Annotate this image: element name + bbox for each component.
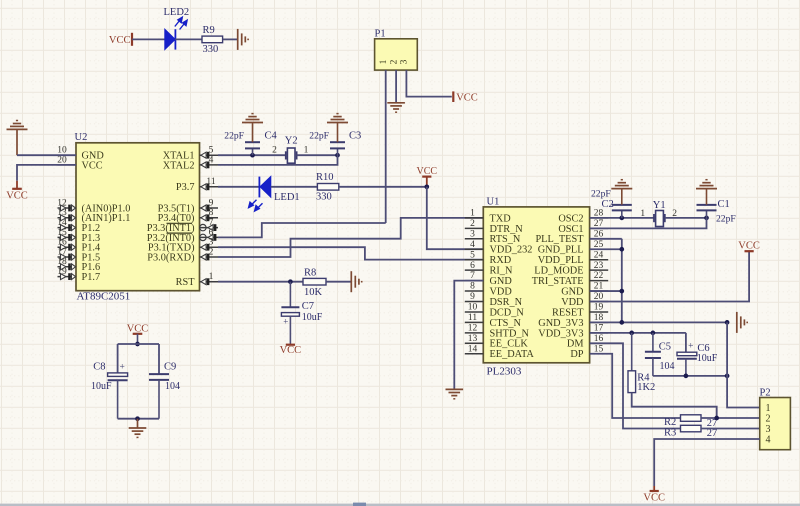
crystal Y1 <box>640 200 677 227</box>
node GND pin21 <box>619 289 624 294</box>
svg-text:15: 15 <box>57 228 67 238</box>
svg-text:DCD_N: DCD_N <box>490 307 525 318</box>
ground (C3) <box>327 114 348 123</box>
wire C8/C9 bottom rail <box>118 418 159 420</box>
svg-text:DTR_N: DTR_N <box>490 224 524 235</box>
svg-text:2: 2 <box>470 219 475 229</box>
wire VCC to LED2 <box>132 38 165 40</box>
svg-text:3: 3 <box>470 229 475 239</box>
wire R9 to ground <box>223 38 238 40</box>
capacitor C7 (10uF electrolytic) <box>281 282 322 345</box>
svg-text:4: 4 <box>209 155 214 165</box>
svg-text:RST: RST <box>176 277 196 288</box>
svg-text:+: + <box>283 316 288 326</box>
svg-text:2: 2 <box>766 414 771 425</box>
IC U1 body <box>483 197 589 378</box>
connector P2 <box>760 387 791 449</box>
svg-text:104: 104 <box>660 361 675 372</box>
svg-text:VDD: VDD <box>490 286 513 297</box>
svg-text:23: 23 <box>594 261 604 271</box>
node C6 bottom <box>684 374 689 379</box>
svg-text:DP: DP <box>570 349 583 360</box>
ground (C2) <box>611 180 632 189</box>
svg-text:C9: C9 <box>164 361 176 372</box>
svg-text:6: 6 <box>470 261 475 271</box>
capacitor C4 (22pF) <box>224 123 277 155</box>
node R4 top <box>629 331 634 336</box>
wire VCC node to U1 VDD_232 <box>427 187 484 249</box>
capacitor C1 (22pF) <box>697 189 736 225</box>
svg-text:10K: 10K <box>304 287 323 298</box>
svg-text:DM: DM <box>567 339 584 350</box>
svg-text:10: 10 <box>57 146 67 156</box>
svg-text:R10: R10 <box>316 172 334 183</box>
svg-text:10uF: 10uF <box>91 381 112 392</box>
LED D-LED1 <box>249 176 300 211</box>
power port VCC (P1 pin3) <box>453 91 477 103</box>
svg-text:11: 11 <box>206 177 215 187</box>
svg-text:22pF: 22pF <box>309 130 329 141</box>
wire OSC1 jog to C1 node <box>590 218 707 228</box>
svg-text:5: 5 <box>209 146 214 156</box>
wire LED2 to R9 <box>175 38 202 40</box>
svg-text:C8: C8 <box>93 361 105 372</box>
svg-text:12: 12 <box>468 323 478 333</box>
power port VCC (U2 pin20) <box>6 189 28 202</box>
U2 left pin names <box>82 151 131 283</box>
svg-text:U2: U2 <box>75 132 88 143</box>
svg-text:26: 26 <box>594 229 604 239</box>
svg-text:1: 1 <box>640 209 645 219</box>
svg-text:VCC: VCC <box>643 493 665 504</box>
resistor R10 (330) <box>316 172 339 202</box>
svg-text:18: 18 <box>57 257 67 267</box>
ground (C1) <box>696 180 717 189</box>
svg-text:9: 9 <box>209 198 214 208</box>
wire U2 TXD to U1 RXD <box>218 247 483 259</box>
node C8/C9 ground <box>135 416 140 421</box>
svg-text:9: 9 <box>470 292 475 302</box>
node GND_3V3 left <box>619 320 624 325</box>
wire Y2 to C3 node <box>297 154 338 156</box>
node VCC/C8/C9 <box>135 342 140 347</box>
capacitor C5 (104) <box>645 333 675 376</box>
ground (C4) <box>242 114 263 123</box>
ground (U1 pin7) <box>446 389 464 398</box>
svg-text:1: 1 <box>304 146 309 156</box>
svg-text:19: 19 <box>57 267 67 277</box>
svg-text:19: 19 <box>594 303 604 313</box>
resistor R8 (10K) <box>303 267 326 297</box>
svg-text:RXD: RXD <box>490 255 512 266</box>
svg-text:3: 3 <box>766 424 771 435</box>
wire DP to R2 <box>590 354 681 418</box>
svg-text:22pF: 22pF <box>716 214 736 225</box>
svg-text:PL2303: PL2303 <box>487 366 522 378</box>
svg-text:TRI_STATE: TRI_STATE <box>532 276 584 287</box>
svg-text:104: 104 <box>165 381 180 392</box>
node GND_3V3 right <box>725 320 730 325</box>
U2 right pin names <box>147 151 195 289</box>
svg-text:C3: C3 <box>349 130 361 141</box>
svg-text:6: 6 <box>209 228 214 238</box>
svg-text:20: 20 <box>57 155 67 165</box>
svg-text:2: 2 <box>209 247 214 257</box>
svg-text:17: 17 <box>57 247 67 257</box>
svg-text:LED2: LED2 <box>164 7 190 18</box>
U2 right pins with numbers <box>200 146 219 286</box>
capacitor C8 (10uF electrolytic) <box>91 361 128 418</box>
wire Y1 to C1 node <box>665 217 707 219</box>
ground (C8/C9) <box>129 428 147 437</box>
node GND_PLL <box>619 247 624 252</box>
svg-text:R3: R3 <box>664 427 676 438</box>
svg-text:22pF: 22pF <box>591 189 611 200</box>
node XTAL1/C4 <box>250 153 255 158</box>
wire U2 RXD to U1 TXD <box>218 218 483 257</box>
IC U2 body <box>75 132 200 302</box>
svg-text:VDD_PLL: VDD_PLL <box>538 255 584 266</box>
svg-text:VCC: VCC <box>456 92 478 103</box>
svg-text:C5: C5 <box>659 341 671 352</box>
svg-text:R9: R9 <box>203 25 215 36</box>
wire ground to U2 pin10 <box>17 129 76 155</box>
wire P3.7 to LED1 <box>218 186 259 188</box>
svg-text:1: 1 <box>379 59 389 64</box>
svg-text:1: 1 <box>766 403 771 414</box>
resistor R4 (1K2) <box>628 333 655 393</box>
wire R2 to P2 pin2 <box>701 417 760 419</box>
wire P1 pin2 to ground <box>395 70 397 102</box>
svg-text:U1: U1 <box>487 197 500 208</box>
svg-text:P1.7: P1.7 <box>82 272 101 283</box>
svg-text:14: 14 <box>57 218 67 228</box>
svg-text:GND_3V3: GND_3V3 <box>538 318 583 329</box>
svg-text:5: 5 <box>470 250 475 260</box>
svg-text:VDD: VDD <box>561 297 584 308</box>
resistor R2 (27) <box>664 415 717 429</box>
ground (R8) <box>351 271 361 292</box>
wire U1 GND pin7 to ground <box>454 281 483 390</box>
svg-text:EE_DATA: EE_DATA <box>490 349 535 360</box>
svg-text:27: 27 <box>594 219 604 229</box>
capacitor C2 (22pF) <box>591 189 632 218</box>
svg-text:3: 3 <box>400 59 410 64</box>
svg-text:P3.0(RXD): P3.0(RXD) <box>147 252 194 263</box>
wire R10 to VCC node <box>339 186 427 188</box>
wire U2 pin20 to VCC <box>17 165 76 189</box>
svg-text:OSC2: OSC2 <box>558 213 583 224</box>
svg-text:RESET: RESET <box>552 307 584 318</box>
svg-text:27: 27 <box>707 428 718 439</box>
svg-text:22: 22 <box>594 271 604 281</box>
svg-text:VCC: VCC <box>417 166 438 177</box>
svg-text:RTS_N: RTS_N <box>490 234 521 245</box>
power port VCC (mid) <box>417 166 438 186</box>
wire VDD_3V3 rail <box>590 333 686 352</box>
node VCC/VDD_232 <box>424 184 429 189</box>
svg-text:13: 13 <box>57 208 67 218</box>
svg-text:AT89C2051: AT89C2051 <box>77 291 131 303</box>
wire XTAL2 jog <box>218 155 338 165</box>
svg-text:24: 24 <box>594 250 604 260</box>
U1 right pin stubs with numbers <box>590 209 609 355</box>
wire node to ground <box>137 419 139 428</box>
svg-text:10: 10 <box>468 303 478 313</box>
U1 left pin names <box>490 213 535 360</box>
wire R3 to P2 pin3 <box>701 428 760 430</box>
resistor R9 (330) <box>202 25 223 55</box>
svg-text:LED1: LED1 <box>274 192 300 203</box>
U2 left pins with numbers <box>57 146 76 280</box>
svg-text:14: 14 <box>468 344 478 354</box>
svg-text:VDD_3V3: VDD_3V3 <box>538 328 583 339</box>
svg-text:GND: GND <box>490 276 513 287</box>
svg-text:XTAL2: XTAL2 <box>163 160 195 171</box>
svg-text:TXD: TXD <box>490 213 512 224</box>
svg-text:DSR_N: DSR_N <box>490 297 523 308</box>
svg-text:Y2: Y2 <box>285 135 298 146</box>
svg-text:EE_CLK: EE_CLK <box>490 339 529 350</box>
svg-text:VCC: VCC <box>6 191 28 202</box>
svg-text:4: 4 <box>766 435 771 446</box>
wire OSC2 to Y1 <box>590 217 654 219</box>
svg-text:LD_MODE: LD_MODE <box>534 266 583 277</box>
svg-text:2: 2 <box>272 146 277 156</box>
svg-text:1: 1 <box>470 209 475 219</box>
U1 left pin stubs with numbers <box>465 209 484 355</box>
svg-text:VCC: VCC <box>280 345 302 356</box>
wire C8/C9 top rail <box>118 344 159 374</box>
svg-text:C2: C2 <box>602 199 614 210</box>
svg-text:VCC: VCC <box>109 35 131 46</box>
wire LED1 to R10 <box>271 186 318 188</box>
wire P1 pin3 to VCC <box>406 70 451 97</box>
svg-text:GND_PLL: GND_PLL <box>538 245 584 256</box>
node bottom rail right <box>725 374 730 379</box>
svg-text:16: 16 <box>57 238 67 248</box>
svg-text:CTS_N: CTS_N <box>490 318 522 329</box>
node OSC2/C2 <box>619 216 624 221</box>
svg-text:1K2: 1K2 <box>637 382 655 393</box>
svg-text:10uF: 10uF <box>697 353 718 364</box>
svg-text:P3.7: P3.7 <box>176 182 195 193</box>
ground (GND_3V3 rail) <box>737 312 747 333</box>
wire DM to R3 <box>590 343 681 428</box>
crystal Y2 <box>272 135 309 163</box>
svg-text:P1: P1 <box>375 29 386 40</box>
wire INT0 to P1 pin1 <box>218 223 386 237</box>
wire R4 bottom to DP net <box>632 393 717 418</box>
svg-text:8: 8 <box>209 208 214 218</box>
svg-text:Y1: Y1 <box>653 200 666 211</box>
capacitor C9 (104) <box>149 361 180 418</box>
ground (U2 GND pin10) <box>7 121 28 130</box>
capacitor C6 (10uF electrolytic) <box>677 342 718 376</box>
wire RST to R8 <box>218 281 303 283</box>
svg-text:7: 7 <box>209 218 214 228</box>
wire VDD pin20 to VCC <box>590 251 750 301</box>
svg-text:10uF: 10uF <box>302 312 323 323</box>
svg-text:330: 330 <box>316 191 332 202</box>
wire XTAL1 to Y2 <box>218 154 286 156</box>
LED D-LED2 <box>164 7 190 50</box>
svg-text:+: + <box>120 363 125 373</box>
capacitor C3 (22pF) <box>309 123 361 155</box>
svg-text:3: 3 <box>209 238 214 248</box>
wire PLL_TEST/GND_PLL/GND/GND_3V3 tie <box>590 239 728 323</box>
U1 right pin names <box>532 213 585 360</box>
screen edge band <box>0 503 800 506</box>
wire 3V3 ground rail bottom <box>653 375 727 377</box>
node R2/R4/P2.2 <box>714 416 719 421</box>
power port VCC (P2 pin4) <box>643 491 665 504</box>
node OSC1/C1/Y1 <box>704 216 709 221</box>
svg-text:4: 4 <box>470 240 475 250</box>
wire rail to P2 pin1 <box>727 322 760 407</box>
svg-text:VCC: VCC <box>738 240 760 251</box>
svg-text:R8: R8 <box>304 267 316 278</box>
svg-text:VCC: VCC <box>82 160 103 171</box>
svg-text:2: 2 <box>389 59 399 64</box>
svg-text:12: 12 <box>57 198 67 208</box>
power port VCC (U1 VDD) <box>738 240 760 251</box>
svg-text:PLL_TEST: PLL_TEST <box>535 234 584 245</box>
svg-text:RI_N: RI_N <box>490 266 513 277</box>
svg-text:330: 330 <box>203 44 219 55</box>
wire R8 to ground <box>326 281 351 283</box>
node RST/C7 <box>288 279 293 284</box>
svg-text:C4: C4 <box>265 130 278 141</box>
resistor R3 (27) <box>664 425 717 439</box>
svg-text:VDD_232: VDD_232 <box>490 245 533 256</box>
svg-text:8: 8 <box>470 282 475 292</box>
svg-text:+: + <box>688 342 693 352</box>
svg-text:11: 11 <box>468 313 477 323</box>
wire P2 pin4 to VCC <box>654 439 760 486</box>
ground (P1 pin2) <box>387 103 405 112</box>
svg-text:GND: GND <box>561 286 584 297</box>
connector P1 <box>375 29 418 71</box>
svg-text:C7: C7 <box>302 301 314 312</box>
svg-text:1: 1 <box>209 272 214 282</box>
svg-text:SHTD_N: SHTD_N <box>490 328 530 339</box>
svg-text:OSC1: OSC1 <box>558 224 583 235</box>
wire P1 pin1 down to INT0 net <box>385 70 387 223</box>
power port VCC (C8/C9) <box>127 324 149 344</box>
node C5 top <box>651 331 656 336</box>
power port VCC (C7) <box>280 345 302 356</box>
svg-text:13: 13 <box>468 334 478 344</box>
node XTAL2/C3/Y2 <box>335 153 340 158</box>
svg-text:C1: C1 <box>718 199 730 210</box>
power port VCC (LED2 anode) <box>109 33 132 46</box>
ground (R9) <box>238 29 248 50</box>
svg-text:22pF: 22pF <box>224 130 244 141</box>
